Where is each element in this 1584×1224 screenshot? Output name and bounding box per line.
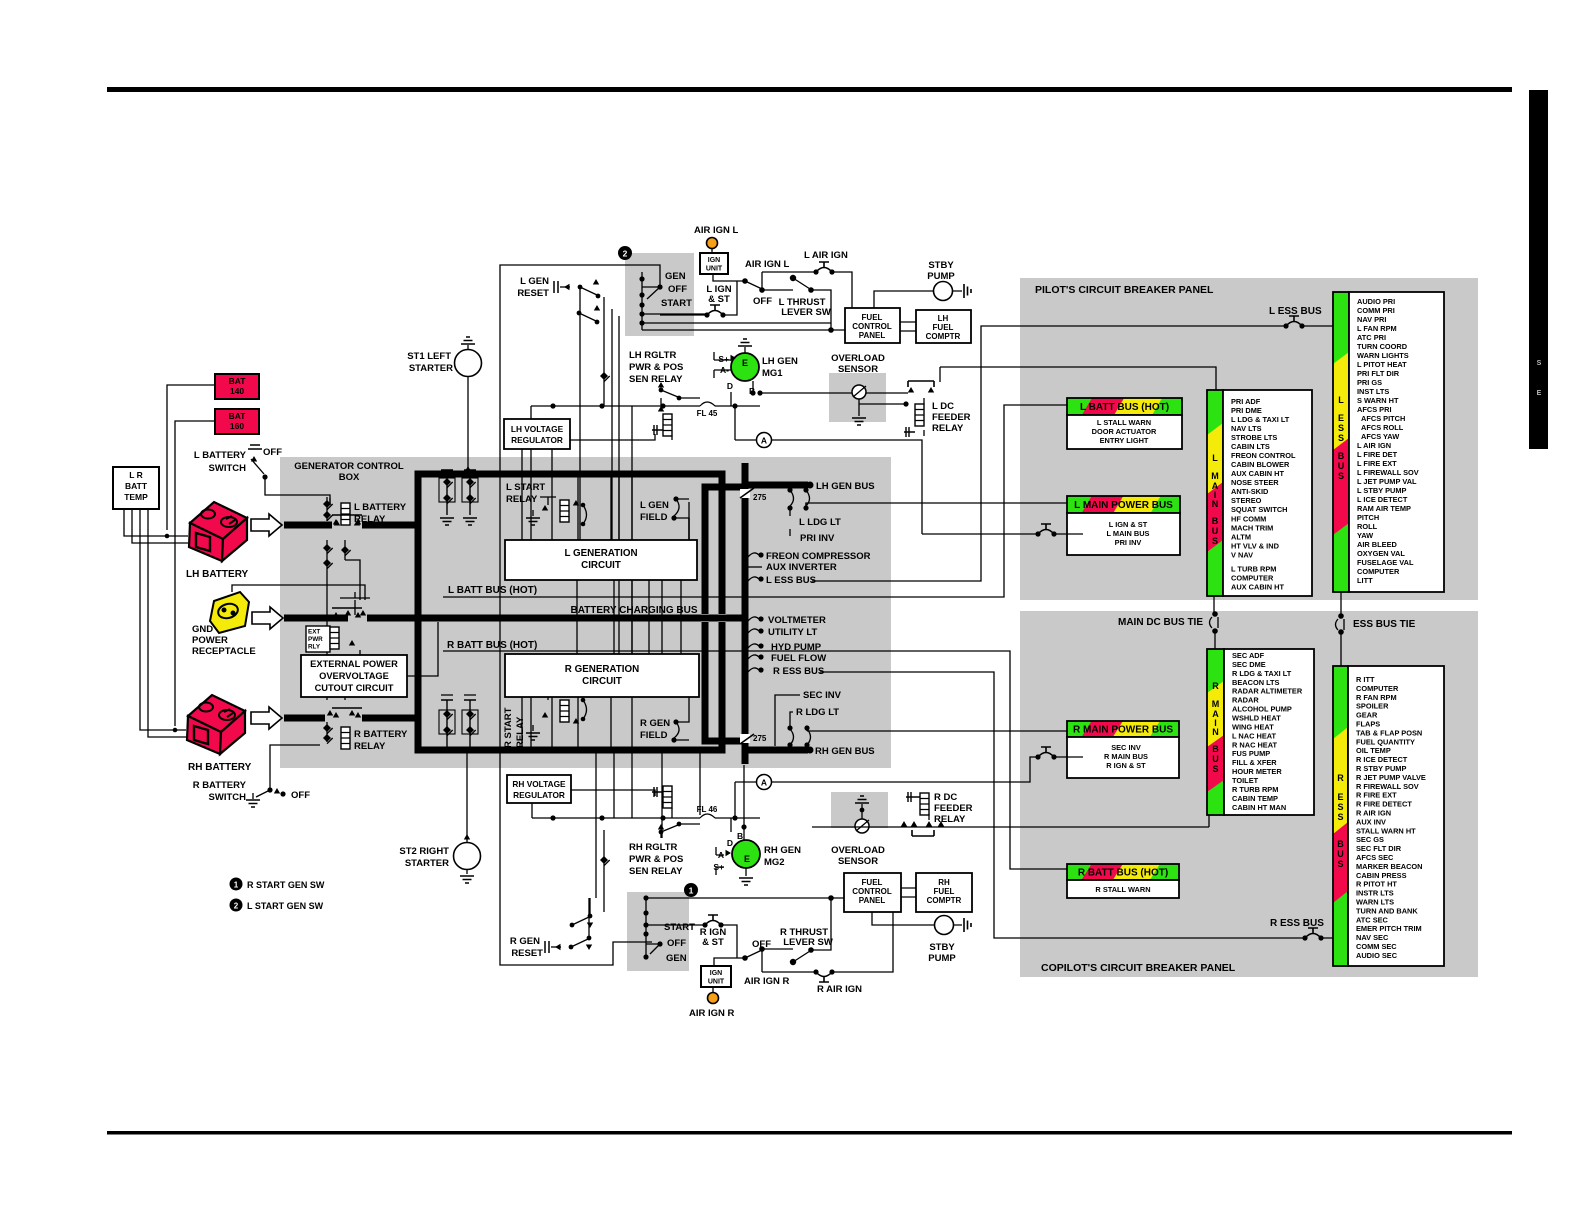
svg-text:S: S [1212, 536, 1218, 546]
svg-text:NOSE STEER: NOSE STEER [1231, 478, 1279, 487]
svg-text:L JET PUMP VAL: L JET PUMP VAL [1357, 477, 1417, 486]
RH voltage regulator [507, 775, 571, 803]
svg-text:S: S [1338, 471, 1344, 481]
L generation circuit box [505, 540, 697, 580]
legend 1: R START GEN SW [230, 878, 243, 891]
svg-text:ROLL: ROLL [1357, 522, 1378, 531]
svg-text:R GEN: R GEN [510, 936, 540, 947]
svg-text:GEAR: GEAR [1356, 711, 1378, 720]
svg-text:PRI FLT DIR: PRI FLT DIR [1357, 369, 1400, 378]
svg-text:L FIREWALL SOV: L FIREWALL SOV [1357, 468, 1419, 477]
LH voltage regulator [504, 419, 570, 449]
wire to L MAIN POWER BUS [939, 367, 941, 382]
svg-text:E: E [1537, 390, 1542, 397]
svg-text:SENSOR: SENSOR [838, 856, 878, 867]
svg-text:RH RGLTR: RH RGLTR [629, 842, 678, 853]
svg-text:LEVER SW: LEVER SW [781, 307, 831, 318]
svg-text:R ESS BUS: R ESS BUS [773, 666, 824, 677]
svg-text:PRI INV: PRI INV [1115, 538, 1142, 547]
tap aux inverter [748, 566, 762, 568]
svg-text:FREON CONTROL: FREON CONTROL [1231, 451, 1296, 460]
svg-text:1: 1 [234, 881, 239, 890]
RH gen MG2 [732, 840, 760, 868]
svg-text:ANTI-SKID: ANTI-SKID [1231, 487, 1269, 496]
PRI INV switch [803, 487, 808, 492]
svg-text:CONTROL: CONTROL [852, 887, 892, 896]
svg-text:L BATTERY: L BATTERY [194, 450, 247, 461]
svg-text:STALL WARN HT: STALL WARN HT [1356, 826, 1416, 835]
L ESS BUS list [1349, 292, 1444, 592]
svg-text:LH VOLTAGE: LH VOLTAGE [511, 424, 564, 434]
svg-text:R FIRE EXT: R FIRE EXT [1356, 791, 1397, 800]
svg-text:R JET PUMP VALVE: R JET PUMP VALVE [1356, 773, 1426, 782]
svg-text:N: N [1212, 727, 1219, 737]
svg-text:L BATT BUS (HOT): L BATT BUS (HOT) [448, 585, 537, 596]
chapter tab [1529, 90, 1548, 449]
copilot's circuit breaker panel gray [1020, 611, 1478, 977]
svg-text:140: 140 [230, 386, 244, 396]
svg-text:AFCS PRI: AFCS PRI [1357, 405, 1392, 414]
svg-text:RAM AIR TEMP: RAM AIR TEMP [1357, 504, 1411, 513]
svg-text:L LDG LT: L LDG LT [799, 517, 841, 528]
svg-text:FIELD: FIELD [640, 512, 668, 523]
generator control box gray area [280, 457, 891, 768]
badge 2 [618, 246, 632, 260]
svg-text:E: E [1338, 413, 1344, 423]
svg-text:STARTER: STARTER [405, 858, 449, 869]
svg-text:DOOR ACTUATOR: DOOR ACTUATOR [1092, 427, 1157, 436]
svg-text:POWER: POWER [192, 635, 228, 646]
batt temp wires [124, 509, 188, 737]
svg-text:CABIN HT MAN: CABIN HT MAN [1232, 803, 1286, 812]
svg-text:STEREO: STEREO [1231, 496, 1262, 505]
svg-text:RH GEN: RH GEN [764, 845, 801, 856]
R battery relay [341, 727, 350, 749]
svg-text:D: D [727, 381, 733, 391]
R MAIN POWER BUS switch [1035, 747, 1056, 760]
svg-text:M: M [1211, 471, 1219, 481]
svg-text:OVERLOAD: OVERLOAD [831, 845, 885, 856]
svg-text:PRI DME: PRI DME [1231, 406, 1262, 415]
svg-text:AIR BLEED: AIR BLEED [1357, 540, 1397, 549]
svg-text:PUMP: PUMP [927, 271, 955, 282]
tap fuel flow [748, 655, 759, 659]
svg-text:FLAPS: FLAPS [1356, 720, 1380, 729]
L R BATT TEMP box [113, 467, 159, 509]
svg-text:ALCOHOL PUMP: ALCOHOL PUMP [1232, 705, 1292, 714]
wire R battery switch up to relay [270, 745, 320, 772]
L BATT BUS (HOT) box [1067, 398, 1182, 415]
svg-text:WSHLD HEAT: WSHLD HEAT [1232, 714, 1281, 723]
svg-text:OFF: OFF [263, 447, 282, 458]
tap hyd pump [748, 644, 759, 648]
svg-text:L: L [1338, 395, 1344, 405]
svg-text:COPILOT'S CIRCUIT BREAKER PANE: COPILOT'S CIRCUIT BREAKER PANEL [1041, 962, 1236, 974]
svg-text:E: E [744, 854, 750, 864]
svg-text:CABIN LTS: CABIN LTS [1231, 442, 1270, 451]
svg-text:PUMP: PUMP [928, 953, 956, 964]
svg-text:SENSOR: SENSOR [838, 364, 878, 375]
svg-text:R DC: R DC [934, 792, 957, 803]
RH battery feed stub [284, 715, 418, 722]
svg-text:S: S [1338, 433, 1344, 443]
A connector bottom [757, 775, 772, 790]
svg-text:AIR IGN R: AIR IGN R [744, 976, 790, 987]
wire receptacle top to cutout circuit [232, 585, 365, 600]
LH battery (3D) [189, 502, 247, 561]
svg-text:WARN LTS: WARN LTS [1356, 898, 1394, 907]
BAT 140 sensor box [215, 374, 259, 399]
svg-text:L GEN: L GEN [520, 276, 549, 287]
svg-text:E: E [742, 358, 748, 368]
svg-text:SWITCH: SWITCH [209, 792, 247, 803]
wire PRI INV to L MAIN POWER BUS [806, 503, 1067, 508]
svg-text:CABIN BLOWER: CABIN BLOWER [1231, 460, 1290, 469]
svg-text:OFF: OFF [753, 296, 772, 307]
R ESS BUS list [1348, 666, 1444, 966]
svg-text:SEC INV: SEC INV [803, 690, 842, 701]
svg-text:R ITT: R ITT [1356, 675, 1375, 684]
svg-text:UNIT: UNIT [706, 266, 723, 273]
R start gen switch gray patch [627, 892, 689, 971]
svg-text:CONTROL: CONTROL [852, 322, 892, 331]
svg-text:RESET: RESET [511, 948, 543, 959]
svg-text:L: L [1212, 453, 1218, 463]
svg-text:RELAY: RELAY [354, 741, 386, 752]
svg-text:L START GEN SW: L START GEN SW [247, 901, 324, 911]
svg-text:OFF: OFF [668, 284, 687, 295]
diode bridge cluster top (L start circuit) [439, 470, 478, 525]
svg-text:R FAN RPM: R FAN RPM [1356, 693, 1397, 702]
svg-text:PRI INV: PRI INV [800, 533, 835, 544]
L MAIN BUS list [1223, 390, 1312, 596]
svg-text:LH: LH [938, 314, 949, 323]
svg-text:L MAIN POWER BUS: L MAIN POWER BUS [1074, 500, 1173, 511]
svg-text:S: S [1337, 859, 1343, 869]
svg-text:L STBY PUMP: L STBY PUMP [1357, 486, 1406, 495]
svg-text:INST LTS: INST LTS [1357, 387, 1389, 396]
svg-text:L BATT BUS (HOT): L BATT BUS (HOT) [1080, 402, 1169, 413]
svg-text:R BATTERY: R BATTERY [354, 729, 408, 740]
overload sensor gray patch bottom [831, 792, 888, 828]
svg-text:B: B [737, 831, 743, 841]
svg-text:L R: L R [129, 470, 143, 480]
svg-text:HOUR METER: HOUR METER [1232, 767, 1282, 776]
gnd power receptacle (yellow) [210, 592, 249, 633]
external power overvoltage cutout circuit box [301, 655, 407, 697]
svg-text:L TURB RPM: L TURB RPM [1231, 564, 1276, 573]
svg-text:HF COMM: HF COMM [1231, 514, 1266, 523]
svg-text:S: S [1212, 764, 1218, 774]
svg-text:FUEL FLOW: FUEL FLOW [771, 653, 826, 664]
svg-text:M: M [1212, 699, 1220, 709]
svg-text:L IGN & ST: L IGN & ST [1109, 520, 1148, 529]
svg-text:2: 2 [234, 902, 239, 911]
tap L ESS BUS [748, 577, 759, 581]
IGN unit L [711, 248, 713, 253]
vertical distribution bus V3 [742, 463, 749, 764]
svg-text:S: S [1537, 360, 1542, 367]
svg-text:R BATT BUS (HOT): R BATT BUS (HOT) [1078, 868, 1168, 879]
svg-text:VOLTMETER: VOLTMETER [768, 615, 826, 626]
svg-text:LH GEN: LH GEN [762, 356, 798, 367]
wire overload to R MAIN bus bar [812, 815, 1209, 827]
IGN unit R [701, 966, 731, 987]
diode bridge cluster bottom (R start circuit) [439, 695, 478, 747]
svg-text:COMPTR: COMPTR [927, 896, 962, 905]
L LDG LT switch [787, 487, 792, 492]
svg-text:R FIREWALL SOV: R FIREWALL SOV [1356, 782, 1419, 791]
svg-text:BOX: BOX [339, 472, 360, 483]
svg-text:R PITOT HT: R PITOT HT [1356, 880, 1397, 889]
svg-text:PILOT'S CIRCUIT BREAKER PANEL: PILOT'S CIRCUIT BREAKER PANEL [1035, 284, 1214, 296]
svg-text:R STBY PUMP: R STBY PUMP [1356, 764, 1406, 773]
svg-text:S: S [1337, 802, 1343, 812]
R BATT BUS (HOT) box [1067, 864, 1179, 880]
svg-text:PRI GS: PRI GS [1357, 378, 1382, 387]
svg-text:SQUAT SWITCH: SQUAT SWITCH [1231, 505, 1288, 514]
R generation circuit box [505, 654, 699, 697]
svg-text:E: E [1337, 792, 1343, 802]
svg-text:CIRCUIT: CIRCUIT [582, 676, 622, 687]
svg-text:AFCS PITCH: AFCS PITCH [1361, 414, 1405, 423]
RH fuel computer [916, 873, 972, 912]
svg-text:CUTOUT CIRCUIT: CUTOUT CIRCUIT [315, 683, 394, 693]
svg-text:R LDG & TAXI LT: R LDG & TAXI LT [1232, 669, 1292, 678]
svg-text:L STALL WARN: L STALL WARN [1097, 418, 1151, 427]
svg-text:LH RGLTR: LH RGLTR [629, 350, 676, 361]
svg-text:L PITOT HEAT: L PITOT HEAT [1357, 360, 1407, 369]
svg-text:L LDG & TAXI LT: L LDG & TAXI LT [1231, 415, 1290, 424]
L start gen switch gray patch [625, 253, 694, 336]
svg-text:INSTR LTS: INSTR LTS [1356, 889, 1394, 898]
svg-text:LEVER SW: LEVER SW [783, 937, 833, 948]
svg-text:L MAIN BUS: L MAIN BUS [1107, 529, 1150, 538]
svg-text:REGULATOR: REGULATOR [513, 790, 565, 800]
svg-text:FREON COMPRESSOR: FREON COMPRESSOR [766, 551, 871, 562]
svg-text:NAV PRI: NAV PRI [1357, 315, 1386, 324]
wire R BATT BUS HOT feed [443, 651, 1067, 869]
A connector top [757, 433, 772, 448]
svg-text:STBY: STBY [928, 260, 954, 271]
badge 1 [684, 883, 698, 897]
white arrow gnd power [252, 607, 283, 629]
svg-text:R START GEN SW: R START GEN SW [247, 880, 325, 890]
svg-text:B: B [1338, 451, 1345, 461]
svg-text:& ST: & ST [702, 937, 724, 948]
svg-text:R: R [1337, 773, 1344, 783]
svg-text:RH GEN BUS: RH GEN BUS [815, 746, 875, 757]
svg-text:ST2 RIGHT: ST2 RIGHT [399, 846, 449, 857]
svg-text:OFF: OFF [291, 790, 310, 801]
svg-text:MARKER BEACON: MARKER BEACON [1356, 862, 1423, 871]
svg-text:TURN COORD: TURN COORD [1357, 342, 1408, 351]
svg-text:B: B [1212, 516, 1219, 526]
svg-text:GND: GND [192, 624, 213, 635]
svg-text:PRI ADF: PRI ADF [1231, 397, 1261, 406]
page bottom rule [107, 1131, 1512, 1135]
svg-text:PWR & POS: PWR & POS [629, 854, 683, 865]
svg-text:FUEL: FUEL [934, 887, 955, 896]
svg-text:R NAC HEAT: R NAC HEAT [1232, 740, 1278, 749]
svg-text:R BATT BUS (HOT): R BATT BUS (HOT) [447, 640, 537, 651]
svg-text:AUX INV: AUX INV [1356, 817, 1386, 826]
svg-text:FL 46: FL 46 [697, 805, 718, 814]
wire L BATT BUS HOT feed [443, 405, 1067, 597]
svg-text:R GEN: R GEN [640, 718, 670, 729]
R MAIN BUS list [1224, 649, 1314, 815]
svg-text:OFF: OFF [667, 938, 686, 949]
svg-text:FUEL: FUEL [862, 878, 883, 887]
svg-text:S: S [1337, 812, 1343, 822]
svg-text:SEC DME: SEC DME [1232, 660, 1266, 669]
svg-text:RESET: RESET [517, 288, 549, 299]
svg-text:ENTRY LIGHT: ENTRY LIGHT [1100, 436, 1149, 445]
svg-text:A: A [761, 436, 767, 446]
svg-text:BAT: BAT [229, 411, 247, 421]
svg-text:AFCS YAW: AFCS YAW [1361, 432, 1399, 441]
svg-text:FEEDER: FEEDER [932, 412, 971, 423]
svg-text:COMPUTER: COMPUTER [1356, 684, 1399, 693]
svg-text:SPOILER: SPOILER [1356, 702, 1389, 711]
svg-text:L FIRE DET: L FIRE DET [1357, 450, 1398, 459]
svg-text:AIR IGN L: AIR IGN L [694, 225, 739, 236]
svg-text:SEC INV: SEC INV [1111, 743, 1141, 752]
wire BAT160 to RH battery [175, 421, 215, 726]
svg-text:RH: RH [938, 878, 950, 887]
svg-text:SEN RELAY: SEN RELAY [629, 866, 683, 877]
standby pump bottom [935, 916, 954, 935]
svg-text:RECEPTACLE: RECEPTACLE [192, 646, 256, 657]
svg-text:& ST: & ST [708, 294, 730, 305]
svg-text:COMPUTER: COMPUTER [1357, 567, 1400, 576]
wire to L MAIN BUS bar top [940, 367, 1216, 390]
legend 2: L START GEN SW [230, 899, 243, 912]
FL 46 fuse row [532, 803, 700, 818]
svg-text:R FIRE DETECT: R FIRE DETECT [1356, 800, 1412, 809]
svg-text:CIRCUIT: CIRCUIT [581, 560, 621, 571]
svg-text:AFCS ROLL: AFCS ROLL [1361, 423, 1404, 432]
svg-text:START: START [661, 298, 692, 309]
page top rule [107, 87, 1512, 92]
tap voltmeter [748, 617, 759, 621]
svg-text:FIELD: FIELD [640, 730, 668, 741]
svg-text:NAV SEC: NAV SEC [1356, 933, 1389, 942]
svg-text:WING HEAT: WING HEAT [1232, 722, 1274, 731]
svg-text:TURN AND BANK: TURN AND BANK [1356, 906, 1418, 915]
svg-text:STROBE LTS: STROBE LTS [1231, 433, 1277, 442]
svg-text:OXYGEN VAL: OXYGEN VAL [1357, 549, 1405, 558]
svg-text:RH BATTERY: RH BATTERY [188, 762, 252, 773]
svg-text:S+: S+ [718, 354, 729, 364]
wire R ESS BUS [820, 672, 1333, 938]
svg-text:RH VOLTAGE: RH VOLTAGE [512, 779, 566, 789]
svg-text:A: A [761, 778, 767, 788]
pilot's circuit breaker panel gray [1020, 278, 1478, 600]
svg-text:COMPUTER: COMPUTER [1231, 573, 1274, 582]
svg-text:R AIR IGN: R AIR IGN [817, 984, 862, 995]
L MAIN POWER BUS switch [1035, 524, 1056, 537]
svg-text:S WARN HT: S WARN HT [1357, 396, 1399, 405]
fuel control panel bottom [844, 873, 901, 912]
inner bus loop V4 to V3 [705, 487, 745, 741]
svg-text:B: B [1337, 839, 1344, 849]
svg-text:UTILITY LT: UTILITY LT [768, 627, 817, 638]
svg-text:BATTERY CHARGING BUS: BATTERY CHARGING BUS [570, 605, 697, 616]
svg-text:FUEL: FUEL [862, 313, 883, 322]
svg-text:STARTER: STARTER [409, 363, 453, 374]
svg-text:L AIR IGN: L AIR IGN [804, 250, 848, 261]
svg-text:COMM PRI: COMM PRI [1357, 306, 1395, 315]
svg-text:TEMP: TEMP [124, 492, 148, 502]
svg-text:SEN RELAY: SEN RELAY [629, 374, 683, 385]
svg-text:START: START [664, 922, 695, 933]
svg-text:S: S [1338, 423, 1344, 433]
wire to R MAIN POWER BUS [807, 728, 1067, 731]
svg-text:AUDIO PRI: AUDIO PRI [1357, 297, 1395, 306]
svg-text:RADAR: RADAR [1232, 696, 1259, 705]
white arrow RH battery [251, 707, 282, 729]
tap utility lt [748, 629, 759, 633]
svg-text:FEEDER: FEEDER [934, 803, 973, 814]
svg-text:IGN: IGN [710, 970, 722, 977]
275 breaker top [740, 489, 750, 498]
svg-text:R GENERATION: R GENERATION [565, 664, 639, 675]
svg-text:ST1 LEFT: ST1 LEFT [407, 351, 451, 362]
L battery relay [341, 503, 350, 525]
svg-text:CABIN PRESS: CABIN PRESS [1356, 871, 1407, 880]
RH GEN BUS stub [748, 747, 808, 754]
svg-text:275: 275 [753, 493, 767, 502]
wire: sen relay row [531, 406, 700, 419]
fuel control panel [845, 308, 900, 343]
svg-text:LITT: LITT [1357, 576, 1373, 585]
main bus rectangle: L BATT BUS / R BATT BUS / vertical feeders [418, 474, 722, 750]
svg-text:L NAC HEAT: L NAC HEAT [1232, 731, 1277, 740]
battery charging bus [701, 614, 709, 622]
svg-text:MG2: MG2 [764, 857, 785, 868]
svg-text:PWR & POS: PWR & POS [629, 362, 683, 373]
svg-text:OIL TEMP: OIL TEMP [1356, 746, 1391, 755]
svg-text:LH BATTERY: LH BATTERY [186, 569, 249, 580]
svg-text:CABIN TEMP: CABIN TEMP [1232, 794, 1278, 803]
overload sensor gray patch top [829, 373, 886, 422]
svg-text:R AIR IGN: R AIR IGN [1356, 809, 1391, 818]
svg-text:BEACON LTS: BEACON LTS [1232, 678, 1280, 687]
svg-text:NAV LTS: NAV LTS [1231, 424, 1262, 433]
svg-text:U: U [1338, 461, 1345, 471]
svg-text:R TURB RPM: R TURB RPM [1232, 785, 1278, 794]
svg-text:R LDG LT: R LDG LT [796, 707, 839, 718]
svg-text:RADAR ALTIMETER: RADAR ALTIMETER [1232, 687, 1303, 696]
gen circuit vertical wires [522, 449, 552, 540]
svg-text:FUEL: FUEL [933, 323, 954, 332]
RH battery (3D) [187, 695, 245, 754]
svg-text:AUX INVERTER: AUX INVERTER [766, 562, 837, 573]
svg-text:L FAN RPM: L FAN RPM [1357, 324, 1397, 333]
svg-text:MG1: MG1 [762, 368, 783, 379]
svg-text:R ICE DETECT: R ICE DETECT [1356, 755, 1408, 764]
svg-text:PWR: PWR [308, 636, 323, 643]
svg-text:RLY: RLY [308, 644, 321, 651]
svg-text:FUSELAGE VAL: FUSELAGE VAL [1357, 558, 1414, 567]
svg-text:REGULATOR: REGULATOR [511, 435, 563, 445]
svg-text:OVERVOLTAGE: OVERVOLTAGE [319, 671, 389, 681]
svg-text:AUX CABIN HT: AUX CABIN HT [1231, 582, 1284, 591]
svg-text:OVERLOAD: OVERLOAD [831, 353, 885, 364]
svg-text:AFCS SEC: AFCS SEC [1356, 853, 1394, 862]
svg-text:WARN LIGHTS: WARN LIGHTS [1357, 351, 1409, 360]
